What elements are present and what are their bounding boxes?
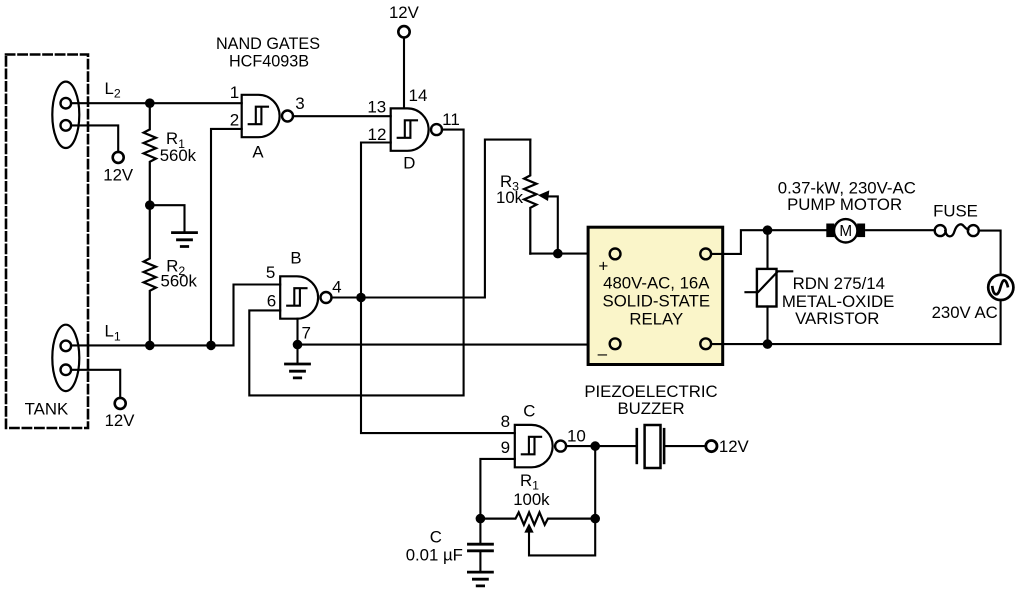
relay terminal minus bbox=[610, 338, 621, 349]
svg-text:4: 4 bbox=[332, 277, 341, 296]
svg-text:A: A bbox=[252, 142, 264, 161]
svg-text:5: 5 bbox=[266, 263, 275, 282]
resistor R1 100k bbox=[480, 512, 595, 524]
wire L1 net bbox=[71, 285, 280, 346]
fuse F1 bbox=[935, 225, 946, 236]
gate C bubble bbox=[555, 441, 566, 452]
svg-text:0.01 µF: 0.01 µF bbox=[406, 545, 463, 564]
node L2 junction bbox=[145, 98, 155, 108]
varistor RV1 body bbox=[757, 269, 777, 307]
buzzer BZ1 bbox=[635, 429, 638, 463]
svg-text:10k: 10k bbox=[496, 188, 524, 207]
gate B hysteresis glyph bbox=[287, 288, 306, 306]
svg-text:11: 11 bbox=[442, 110, 460, 129]
wire varistor branch top bbox=[766, 230, 768, 269]
svg-text:560k: 560k bbox=[160, 146, 197, 165]
svg-text:2: 2 bbox=[230, 111, 239, 130]
node 100k left junction bbox=[476, 514, 486, 524]
ground G3 bbox=[468, 572, 492, 586]
node R1-R2 junction bbox=[145, 200, 155, 210]
resistor R3 10k bbox=[524, 140, 536, 254]
wire gate C out to buzzer bbox=[566, 445, 637, 447]
svg-text:12V: 12V bbox=[105, 411, 136, 430]
terminal 12V lower-left bbox=[115, 398, 126, 409]
svg-text:10: 10 bbox=[567, 426, 586, 445]
wire gate B out to node4 and R3 top bbox=[331, 140, 530, 298]
svg-text:VARISTOR: VARISTOR bbox=[795, 309, 879, 328]
probe L2 contact bottom bbox=[61, 120, 72, 131]
wire source to bottom rail bbox=[711, 300, 1001, 344]
wire gate A pin2 feedback bbox=[211, 129, 242, 346]
relay terminal out-bottom bbox=[700, 338, 711, 349]
wire gate D pin12 down to node4 and on to gate C pin8 bbox=[361, 143, 515, 434]
motor M1 brushes bbox=[826, 224, 834, 238]
probe L1 oval bbox=[52, 325, 79, 391]
probe L2 contact top bbox=[61, 98, 72, 109]
gate A bubble bbox=[282, 111, 293, 122]
svg-text:–: – bbox=[598, 344, 608, 363]
node L1-R2 junction bbox=[145, 341, 155, 351]
probe L1 contact top bbox=[61, 341, 72, 352]
svg-text:8: 8 bbox=[501, 412, 510, 431]
node pin10 junction bbox=[590, 441, 600, 451]
resistor R2 560k bbox=[144, 205, 156, 345]
svg-text:3: 3 bbox=[295, 94, 304, 113]
gate D bubble bbox=[431, 124, 442, 135]
svg-text:12: 12 bbox=[368, 125, 387, 144]
svg-text:560k: 560k bbox=[161, 272, 198, 291]
ground G1 bbox=[173, 233, 197, 247]
wire buzzer to 12V bbox=[664, 445, 706, 447]
R1 100k wiper arrow bbox=[524, 523, 533, 532]
terminal 12V top bbox=[398, 26, 409, 37]
svg-text:100k: 100k bbox=[513, 490, 550, 509]
wire relay out-top to motor bbox=[711, 230, 826, 254]
svg-text:NAND GATES: NAND GATES bbox=[216, 35, 320, 53]
terminal 12V upper-left bbox=[113, 152, 124, 163]
svg-text:B: B bbox=[290, 249, 301, 268]
svg-text:PUMP MOTOR: PUMP MOTOR bbox=[787, 195, 902, 214]
gate B bubble bbox=[321, 292, 332, 303]
source V1 230V AC bbox=[988, 275, 1013, 300]
op-amp U1 gate C body bbox=[515, 425, 553, 467]
node L1 feedback junction bbox=[206, 341, 216, 351]
node pin7 junction bbox=[293, 340, 303, 350]
node R3 wiper junction bbox=[553, 249, 563, 259]
gate A hysteresis glyph bbox=[249, 107, 268, 125]
svg-text:HCF4093B: HCF4093B bbox=[229, 53, 309, 71]
ground G2 bbox=[286, 364, 310, 378]
wire fuse to source bbox=[979, 231, 1001, 276]
svg-text:SOLID-STATE: SOLID-STATE bbox=[603, 292, 711, 311]
svg-text:7: 7 bbox=[301, 323, 310, 342]
wire L2 net bbox=[71, 102, 242, 104]
svg-text:230V AC: 230V AC bbox=[932, 303, 998, 322]
relay terminal out-top bbox=[700, 249, 711, 260]
wire gate D out pin11 loop to gate B pin6 bbox=[249, 130, 463, 396]
svg-text:9: 9 bbox=[501, 438, 510, 457]
wire probe L1 lower to 12V bbox=[71, 370, 120, 398]
tank dashed box bbox=[6, 55, 88, 429]
svg-text:12V: 12V bbox=[389, 3, 420, 22]
probe L2 oval bbox=[52, 82, 79, 148]
wire probe L2 lower to 12V bbox=[71, 125, 118, 151]
svg-text:METAL-OXIDE: METAL-OXIDE bbox=[782, 292, 895, 311]
probe L1 contact bottom bbox=[61, 365, 72, 376]
capacitor C bbox=[479, 519, 481, 543]
wire ground tap bbox=[150, 205, 185, 231]
relay terminal plus bbox=[610, 249, 621, 260]
svg-text:FUSE: FUSE bbox=[933, 202, 978, 221]
wire pin 7 stub bbox=[296, 319, 298, 345]
node varistor bottom junction bbox=[763, 339, 773, 349]
wire pin10 down through 100k right node bbox=[529, 446, 595, 555]
resistor R1 560k bbox=[144, 103, 156, 205]
motor M1 circle bbox=[834, 219, 857, 242]
svg-text:12V: 12V bbox=[103, 165, 134, 184]
svg-text:D: D bbox=[403, 154, 415, 173]
svg-text:1: 1 bbox=[230, 83, 239, 102]
svg-text:TANK: TANK bbox=[25, 399, 69, 418]
svg-text:C: C bbox=[430, 527, 442, 546]
node 4 junction bbox=[356, 293, 366, 303]
wire gate C pin9 loop bbox=[480, 459, 514, 519]
wire gate A out to gate D pin13 bbox=[293, 115, 391, 117]
op-amp U1 gate D body bbox=[391, 108, 429, 150]
node 100k right junction bbox=[590, 514, 600, 524]
svg-text:BUZZER: BUZZER bbox=[617, 399, 684, 418]
gate D hysteresis glyph bbox=[398, 120, 417, 138]
varistor diagonal bbox=[746, 271, 793, 292]
svg-text:C: C bbox=[523, 402, 535, 421]
gate C hysteresis glyph bbox=[522, 437, 541, 455]
wire pin7 to relay minus bbox=[298, 344, 610, 346]
wire pin 14 supply bbox=[403, 38, 405, 109]
svg-text:M: M bbox=[839, 223, 852, 240]
wire motor to fuse bbox=[866, 229, 935, 231]
wire pin7 ground stub bbox=[296, 345, 298, 363]
svg-text:12V: 12V bbox=[719, 437, 750, 456]
op-amp U1 gate B body bbox=[280, 276, 318, 318]
node varistor top junction bbox=[763, 225, 773, 235]
wire R3 bottom to relay plus bbox=[530, 253, 610, 255]
svg-text:13: 13 bbox=[367, 98, 386, 117]
svg-text:6: 6 bbox=[267, 291, 276, 310]
svg-text:RDN 275/14: RDN 275/14 bbox=[793, 274, 885, 293]
wire varistor branch bottom bbox=[766, 307, 768, 345]
svg-text:14: 14 bbox=[409, 86, 428, 105]
svg-text:RELAY: RELAY bbox=[629, 309, 683, 328]
svg-text:480V-AC, 16A: 480V-AC, 16A bbox=[603, 273, 710, 292]
op-amp U1 gate A body bbox=[242, 95, 280, 137]
terminal 12V buzzer bbox=[706, 441, 717, 452]
R3 wiper arrow bbox=[547, 196, 558, 253]
relay U2 box bbox=[588, 227, 723, 364]
